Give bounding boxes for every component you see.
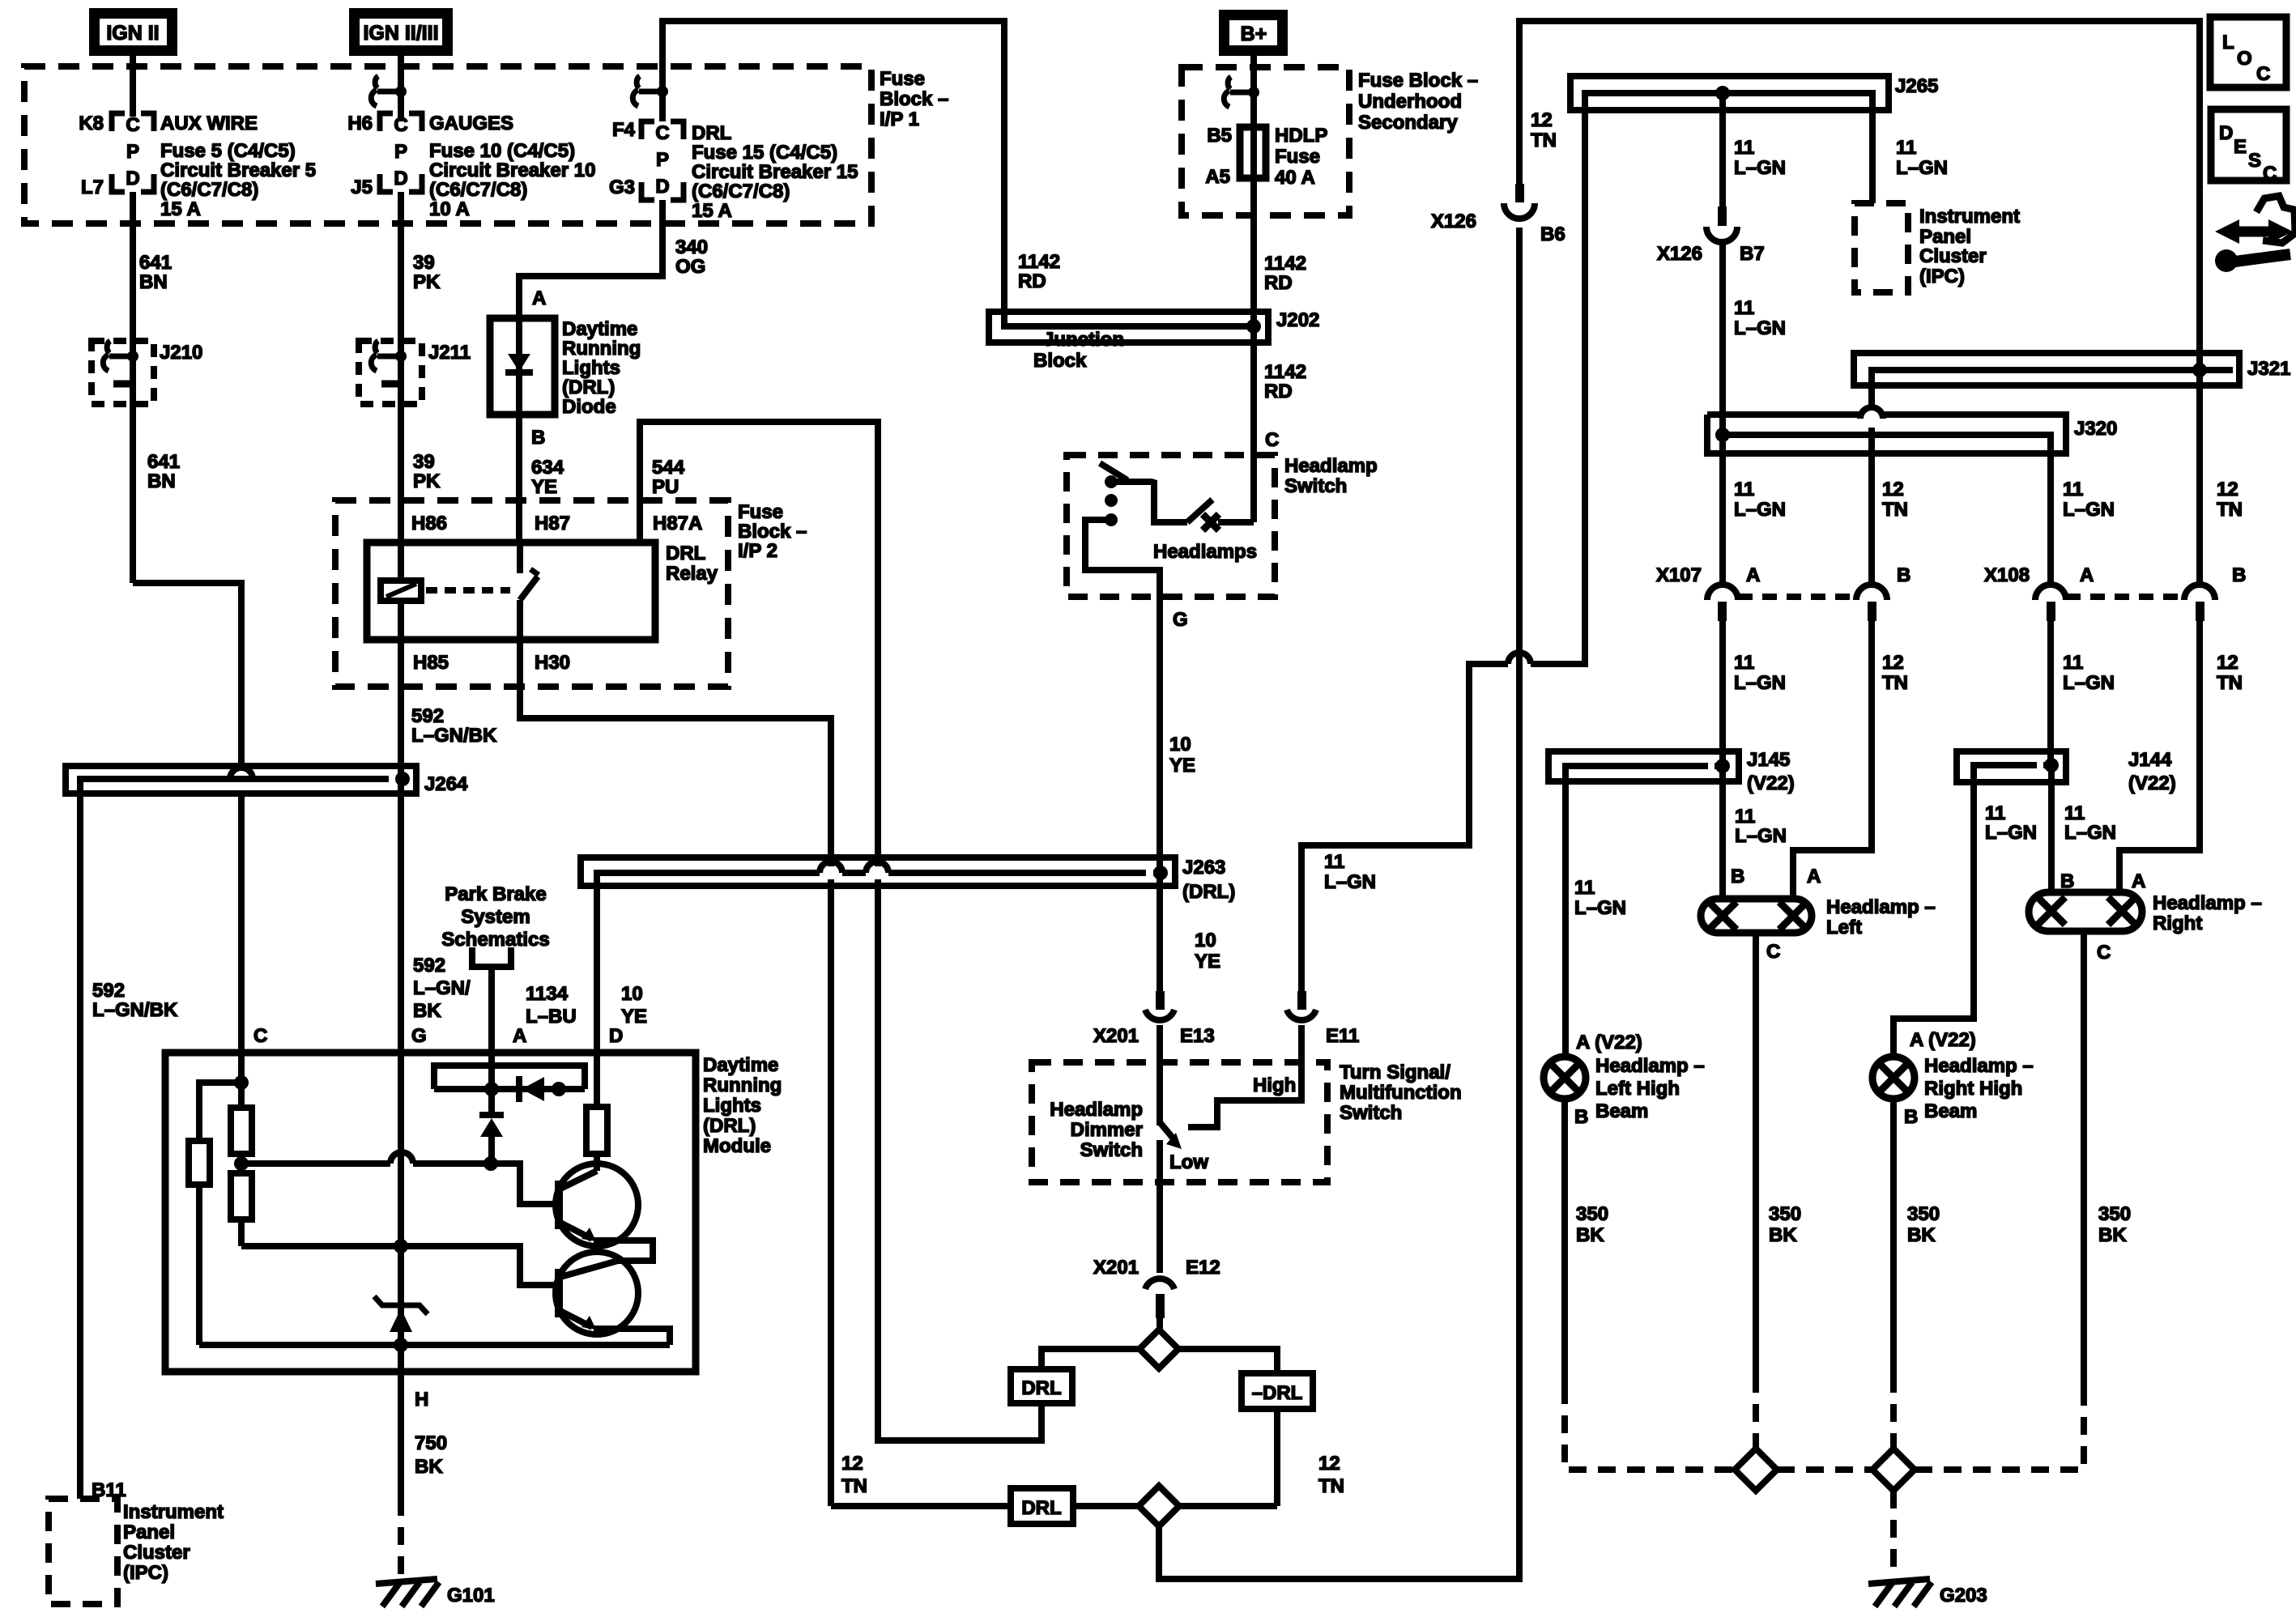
svg-text:L–GN: L–GN: [1985, 822, 2037, 844]
connector clip J211: [371, 341, 407, 384]
wire R3 to Q1 collector: [594, 1154, 600, 1171]
-DRL box: [1242, 1373, 1313, 1409]
svg-text:C: C: [1766, 941, 1780, 963]
svg-text:(C6/C7/C8): (C6/C7/C8): [429, 179, 527, 201]
svg-text:YE: YE: [531, 476, 557, 498]
junction block J202: [989, 312, 1268, 343]
svg-text:592: 592: [92, 980, 125, 1002]
svg-text:(DRL): (DRL): [703, 1115, 756, 1137]
label 634 YE: [531, 457, 564, 498]
wire through diode box: [516, 318, 522, 415]
svg-text:BK: BK: [1907, 1224, 1936, 1246]
svg-text:Park Brake: Park Brake: [445, 883, 546, 905]
svg-text:Fuse 10 (C4/C5): Fuse 10 (C4/C5): [429, 140, 575, 162]
svg-text:(V22): (V22): [2128, 772, 2176, 794]
label Instrument Panel Cluster (IPC) top: [1919, 206, 2020, 287]
svg-text:Circuit Breaker 15: Circuit Breaker 15: [692, 161, 858, 183]
svg-text:750: 750: [415, 1432, 447, 1454]
svg-text:1142: 1142: [1264, 253, 1306, 274]
label 12 TN right: [1318, 1453, 1344, 1497]
label 12 TN above X107 B: [1882, 479, 1908, 521]
svg-text:Running: Running: [703, 1074, 782, 1096]
svg-text:11: 11: [1734, 652, 1754, 674]
svg-text:YE: YE: [1195, 951, 1220, 972]
svg-text:L–GN: L–GN: [2063, 672, 2115, 694]
svg-text:Headlamp –: Headlamp –: [2153, 892, 2262, 914]
svg-text:PK: PK: [413, 271, 441, 293]
label Headlamp - Left: [1826, 896, 1936, 938]
svg-text:12: 12: [1882, 479, 1904, 500]
svg-text:Block –: Block –: [738, 521, 807, 543]
svg-text:E12: E12: [1186, 1257, 1220, 1279]
svg-text:L–GN: L–GN: [1734, 317, 1786, 339]
wire R1 to bottom rail: [196, 1185, 202, 1345]
dashed ground wire left lamp C: [1753, 1375, 1759, 1449]
svg-text:(IPC): (IPC): [1919, 266, 1965, 287]
svg-text:C: C: [655, 122, 669, 144]
svg-text:11: 11: [1734, 297, 1754, 319]
headlamp switch dashed box: [1067, 455, 1275, 597]
wire base lead Q1: [491, 1164, 556, 1204]
svg-text:Panel: Panel: [1919, 226, 1971, 248]
label 544 PU: [652, 457, 685, 498]
label DRL Relay: [666, 543, 718, 585]
wire 10 YE switch to J263: [1157, 597, 1163, 873]
svg-text:1142: 1142: [1018, 251, 1060, 273]
svg-text:592: 592: [411, 705, 444, 727]
splice pack J265: [1570, 76, 1889, 110]
svg-text:C: C: [394, 114, 407, 136]
svg-text:340: 340: [675, 236, 708, 258]
node on C wire: [234, 1075, 249, 1090]
wire J321 dot to X108 B: [2196, 370, 2203, 585]
wire J320 left to X107 A: [1719, 435, 1726, 585]
svg-text:350: 350: [1576, 1203, 1608, 1225]
wire IGN II/III down to CPD: [398, 50, 404, 121]
svg-text:B: B: [1574, 1106, 1588, 1128]
svg-text:X201: X201: [1093, 1257, 1139, 1279]
transistor Q2: [556, 1252, 638, 1334]
svg-text:L–GN: L–GN: [1734, 499, 1786, 521]
wire 634 YE diode B to relay H87: [516, 415, 522, 543]
svg-text:Headlamps: Headlamps: [1153, 541, 1257, 563]
svg-text:J5: J5: [351, 177, 373, 198]
hop of J321 wire over J320 top edge: [1860, 407, 1883, 419]
label 1142 RD below J202: [1264, 361, 1306, 402]
in-line connector J211 dashed box: [359, 341, 422, 404]
svg-text:Switch: Switch: [1340, 1102, 1402, 1124]
diamond splice lower: [1139, 1486, 1179, 1526]
turn signal multifunction switch dashed box: [1032, 1062, 1327, 1182]
label Headlamp Dimmer Switch: [1050, 1099, 1143, 1161]
svg-text:Headlamp: Headlamp: [1284, 455, 1378, 477]
label 350 BK 4: [2098, 1203, 2131, 1246]
svg-text:350: 350: [2098, 1203, 2131, 1225]
svg-text:H86: H86: [411, 513, 447, 534]
svg-text:D: D: [655, 176, 669, 198]
wire 1134 L-BU to module A: [488, 984, 495, 1053]
hop of C wire over J264 bus: [230, 768, 253, 779]
wire diamond2 to -DRL corner: [1179, 1503, 1277, 1509]
svg-text:System: System: [461, 906, 530, 928]
wire R2b down: [238, 1219, 245, 1246]
svg-text:High: High: [1253, 1074, 1296, 1096]
label 11 L-GN below X107 A: [1734, 652, 1786, 694]
svg-text:H87A: H87A: [653, 513, 702, 534]
svg-text:–DRL: –DRL: [1252, 1382, 1303, 1404]
svg-text:C: C: [253, 1025, 267, 1047]
svg-text:Diode: Diode: [562, 396, 616, 418]
ground diamond splice 3: [1735, 1449, 1777, 1491]
wire -DRL down to bottom wire: [1274, 1409, 1280, 1506]
svg-text:Multifunction: Multifunction: [1340, 1082, 1462, 1104]
svg-text:L7: L7: [81, 177, 104, 198]
diode symbol: [505, 354, 533, 372]
svg-text:H87: H87: [535, 513, 570, 534]
label 12 TN below X107 B: [1882, 652, 1908, 694]
wire IGN II down to CPD: [130, 50, 136, 117]
svg-text:X126: X126: [1657, 243, 1702, 265]
svg-text:H: H: [415, 1389, 428, 1411]
svg-text:A: A: [2132, 870, 2145, 892]
wire X108 A to J144: [2047, 621, 2054, 765]
resistor R3: [586, 1107, 607, 1154]
zener diode on G wire: [374, 1296, 428, 1332]
svg-text:Low: Low: [1169, 1151, 1208, 1173]
relay coil: [381, 543, 421, 640]
svg-text:C: C: [126, 114, 139, 136]
svg-text:634: 634: [531, 457, 564, 479]
label AUX WIRE fuse 5: [160, 113, 316, 220]
svg-text:11: 11: [2063, 652, 2083, 674]
label 11 L-GN J265 mid: [1734, 137, 1786, 179]
wire H30 down right and down to bottom DRL wire: [520, 640, 831, 866]
DRL module box: [165, 1053, 696, 1372]
node G-R2b: [394, 1239, 408, 1253]
headlamp left high beam lamp: [1544, 1057, 1586, 1099]
CPD fuse symbol F4/G3: [641, 121, 684, 200]
label 350 BK 2: [1769, 1203, 1801, 1246]
svg-text:TN: TN: [1531, 130, 1557, 151]
svg-text:E11: E11: [1326, 1025, 1359, 1047]
svg-text:I/P 1: I/P 1: [880, 109, 919, 130]
svg-text:J144: J144: [2128, 749, 2172, 771]
wire J144 left exit to right high beam: [1893, 782, 1974, 1057]
in-line connector J210 dashed box: [92, 341, 154, 404]
module internal: left branch wire: [199, 1083, 241, 1141]
label J145 (V22): [1747, 749, 1795, 794]
svg-text:B6: B6: [1540, 223, 1565, 245]
CPD fuse symbol H6/J5: [380, 113, 422, 192]
relay switch contact: [520, 543, 539, 640]
wire X108 B 12TN to headlamp right A: [2119, 621, 2200, 892]
svg-text:Instrument: Instrument: [1919, 206, 2020, 228]
wire 10 YE J263 to module D: [594, 886, 600, 1053]
module bottom rail: [199, 1342, 670, 1348]
svg-text:L–GN: L–GN: [1574, 897, 1626, 919]
svg-text:A5: A5: [1205, 166, 1230, 188]
headlamp right lamp: [2029, 892, 2142, 931]
svg-text:L–GN: L–GN: [1735, 825, 1787, 847]
svg-text:641: 641: [139, 252, 172, 274]
svg-text:Cluster: Cluster: [1919, 245, 1987, 267]
wire J265 dot to B7: [1719, 93, 1726, 206]
HDLP fuse symbol: [1240, 127, 1266, 178]
svg-text:TN: TN: [2217, 672, 2243, 694]
wire 641BN jog to module C column: [133, 583, 241, 766]
label DRL fuse 15: [692, 122, 858, 222]
svg-text:Switch: Switch: [1284, 475, 1347, 497]
ground G203: [1868, 1579, 1932, 1606]
svg-text:HDLP: HDLP: [1275, 125, 1327, 147]
svg-text:(DRL): (DRL): [1182, 881, 1235, 903]
svg-text:11: 11: [2064, 802, 2085, 824]
svg-text:Switch: Switch: [1080, 1139, 1143, 1161]
vertical diode on A wire: [479, 1089, 504, 1164]
wire J265 right leg to IPC: [1869, 110, 1876, 203]
svg-text:Fuse Block –: Fuse Block –: [1358, 70, 1478, 91]
svg-text:B7: B7: [1740, 243, 1765, 265]
svg-text:Daytime: Daytime: [562, 318, 637, 340]
label 350 BK 1: [1576, 1203, 1608, 1246]
label 12 TN above X108 B: [2217, 479, 2243, 521]
transistor Q1: [556, 1164, 638, 1246]
svg-text:(C6/C7/C8): (C6/C7/C8): [160, 179, 258, 201]
label 340 OG: [675, 236, 708, 278]
svg-text:D: D: [394, 168, 407, 189]
wire 750 BK dashed to ground: [398, 1498, 404, 1577]
wire J320 right to X108 A: [2047, 453, 2054, 585]
dimmer switch lever: [1160, 1122, 1182, 1149]
label 12 TN top: [1531, 109, 1557, 151]
label Headlamp - Right High Beam: [1924, 1055, 2034, 1122]
label 11 L-GN left high beam: [1574, 877, 1626, 919]
instrument panel cluster dashed box top right: [1855, 203, 1908, 292]
svg-text:H30: H30: [535, 652, 570, 674]
label 10 YE module D: [621, 983, 647, 1028]
wire B7 down to J320: [1719, 241, 1726, 435]
label 10 YE lower: [1195, 930, 1220, 972]
svg-text:J265: J265: [1895, 75, 1938, 97]
wire 641 BN upper: [130, 192, 136, 583]
label 592 L-GN/BK relay: [411, 705, 497, 747]
svg-text:39: 39: [413, 451, 435, 473]
label 1142 RD right: [1264, 253, 1306, 294]
svg-text:TN: TN: [1882, 499, 1908, 521]
splice pack J145: [1548, 751, 1739, 781]
CPD fuse symbol K8/L7: [112, 113, 154, 192]
label 11 L-GN J144 right: [2064, 802, 2116, 844]
ground diamond splice 4: [1872, 1449, 1915, 1491]
svg-text:(IPC): (IPC): [123, 1562, 168, 1584]
label 592 L-GN/ BK module G: [413, 955, 471, 1022]
svg-text:J211: J211: [428, 342, 471, 364]
label 1134 L-BU: [526, 983, 577, 1028]
wire Q2 emitter to bottom rail: [594, 1329, 670, 1345]
label 11 L-GN B7: [1734, 297, 1786, 339]
label Fuse Block - Underhood Secondary: [1358, 70, 1478, 134]
svg-text:Headlamp –: Headlamp –: [1924, 1055, 2034, 1077]
clip symbol on IGN II/III wire: [371, 76, 407, 106]
svg-text:12: 12: [841, 1453, 863, 1474]
wire X107 A to J145: [1719, 621, 1726, 766]
svg-text:350: 350: [1907, 1203, 1940, 1225]
bottom DRL wire left segment: [831, 1503, 1011, 1509]
DRL diode box: [490, 318, 555, 415]
svg-text:B: B: [1897, 564, 1910, 586]
svg-text:L–GN/BK: L–GN/BK: [92, 999, 178, 1021]
wire diamond to -DRL box: [1178, 1349, 1277, 1373]
svg-text:Running: Running: [562, 338, 641, 360]
svg-text:G203: G203: [1940, 1585, 1987, 1606]
diode row inner loop: [434, 1066, 585, 1089]
svg-text:AUX WIRE: AUX WIRE: [160, 113, 258, 134]
node diode row right: [552, 1082, 566, 1096]
splice pack J144: [1957, 751, 2066, 782]
svg-text:BK: BK: [1769, 1224, 1797, 1246]
svg-text:10: 10: [621, 983, 643, 1005]
module internal A wire: [488, 1053, 495, 1089]
wire 11 L-GN E11 to J265 leg: [1301, 664, 1508, 991]
wire E13 into multifunction switch: [1157, 1025, 1163, 1126]
wire H85/592 to module G: [398, 779, 404, 1053]
svg-text:Schematics: Schematics: [441, 929, 549, 951]
svg-text:L–GN: L–GN: [1896, 157, 1948, 179]
svg-text:Cluster: Cluster: [123, 1542, 190, 1564]
label 11 L-GN below X108 A: [2063, 652, 2115, 694]
svg-text:D: D: [2219, 122, 2233, 144]
svg-text:A (V22): A (V22): [1576, 1032, 1642, 1053]
dashed ground wire between diamonds: [1777, 1466, 1872, 1473]
svg-text:B: B: [1731, 866, 1744, 887]
node2: [234, 1156, 249, 1171]
wire low contact to E12: [1157, 1140, 1163, 1273]
svg-text:11: 11: [1574, 877, 1595, 899]
svg-text:S: S: [2248, 150, 2261, 172]
svg-text:11: 11: [1735, 806, 1755, 828]
svg-text:RD: RD: [1018, 270, 1046, 292]
svg-text:C: C: [2097, 942, 2111, 964]
wire J145 left exit to left high beam: [1562, 781, 1569, 1057]
svg-text:IGN II/III: IGN II/III: [363, 22, 438, 45]
svg-text:641: 641: [147, 451, 180, 473]
label Turn Signal/ Multifunction Switch: [1340, 1062, 1462, 1124]
label 641 BN upper: [139, 252, 172, 293]
wire right high beam B down: [1890, 1099, 1897, 1375]
dashed link X108: [2066, 594, 2184, 600]
label GAUGES fuse 10: [429, 113, 595, 220]
svg-text:TN: TN: [841, 1475, 867, 1497]
svg-text:G: G: [1173, 609, 1188, 631]
svg-text:Fuse 15 (C4/C5): Fuse 15 (C4/C5): [692, 142, 837, 164]
svg-text:B+: B+: [1241, 23, 1267, 45]
svg-text:RD: RD: [1264, 381, 1293, 402]
svg-text:Headlamp –: Headlamp –: [1826, 896, 1936, 918]
DRL box 1: [1011, 1369, 1072, 1403]
dashed wire diamond4 to G203: [1890, 1491, 1897, 1575]
relay coil-contact dashed link: [426, 587, 510, 594]
svg-text:Relay: Relay: [666, 563, 718, 585]
svg-text:BK: BK: [413, 1000, 441, 1022]
svg-text:40 A: 40 A: [1275, 167, 1315, 189]
label 39 PK upper: [413, 252, 441, 293]
svg-text:A: A: [1746, 564, 1760, 586]
svg-text:J145: J145: [1747, 749, 1790, 771]
resistor R1: [189, 1141, 210, 1185]
wire B+ down into underhood fuse block: [1250, 50, 1257, 127]
svg-text:592: 592: [413, 955, 445, 977]
label Fuse Block - I/P 2: [738, 501, 807, 562]
label Daytime Running Lights (DRL) Module: [703, 1054, 782, 1157]
svg-text:RD: RD: [1264, 272, 1293, 294]
power label box B+: [1225, 15, 1283, 51]
svg-text:B: B: [1904, 1106, 1918, 1128]
svg-text:Headlamp –: Headlamp –: [1595, 1055, 1705, 1077]
svg-text:Instrument: Instrument: [123, 1501, 224, 1523]
wire H87A up over to J263 crossing and DRL box: [640, 422, 878, 866]
connector X107 A: [1707, 585, 1738, 621]
svg-text:H6: H6: [347, 113, 373, 134]
svg-text:15 A: 15 A: [692, 200, 732, 222]
svg-text:Secondary: Secondary: [1358, 112, 1458, 134]
label Instrument Panel Cluster (IPC) bottom: [123, 1501, 224, 1584]
label 592 L-GN/BK left: [92, 980, 178, 1021]
svg-text:L–GN: L–GN: [2064, 822, 2116, 844]
svg-text:12: 12: [2217, 479, 2238, 500]
label Junction Block: [1033, 329, 1124, 372]
wire J145 dot to headlamp left B: [1719, 766, 1726, 899]
wire J321 left exit down through J320 to X107 B: [1868, 385, 1875, 585]
svg-text:1134: 1134: [526, 983, 569, 1005]
label Headlamp Switch: [1284, 455, 1378, 497]
svg-text:Dimmer: Dimmer: [1071, 1119, 1143, 1141]
label 750 BK: [415, 1432, 447, 1478]
label 641 BN lower: [147, 451, 180, 492]
wire J144 dot to headlamp right B: [2048, 765, 2055, 892]
svg-text:350: 350: [1769, 1203, 1801, 1225]
label 11 L-GN above X108 A: [2063, 479, 2115, 521]
svg-text:L–GN/BK: L–GN/BK: [411, 725, 497, 747]
svg-text:Beam: Beam: [1595, 1100, 1648, 1122]
svg-text:11: 11: [1734, 137, 1754, 159]
svg-text:DRL: DRL: [1021, 1377, 1061, 1399]
svg-text:BN: BN: [147, 470, 176, 492]
hop of E11 wire over 12TN vertical: [1508, 653, 1531, 664]
label 11 L-GN J144 left: [1985, 802, 2037, 844]
svg-text:P: P: [126, 141, 139, 163]
fuse block Underhood Secondary dashed box: [1182, 67, 1349, 215]
svg-text:L–GN: L–GN: [1734, 157, 1786, 179]
svg-text:Right High: Right High: [1924, 1078, 2022, 1100]
svg-text:Circuit Breaker 5: Circuit Breaker 5: [160, 160, 316, 181]
svg-text:(DRL): (DRL): [562, 377, 615, 398]
label 10 YE upper: [1169, 734, 1195, 777]
label J144 (V22): [2128, 749, 2176, 794]
wire H30 continuation below J263 hop: [828, 879, 834, 1506]
wire 1142 RD to headlamp switch: [1250, 326, 1257, 522]
label 1142 RD left: [1018, 251, 1060, 292]
svg-text:15 A: 15 A: [160, 198, 201, 220]
svg-text:E13: E13: [1180, 1025, 1215, 1047]
svg-text:11: 11: [1324, 851, 1344, 873]
connector clip J210: [103, 341, 138, 384]
svg-text:PU: PU: [652, 476, 679, 498]
svg-text:Fuse: Fuse: [738, 501, 783, 523]
svg-text:Circuit Breaker 10: Circuit Breaker 10: [429, 160, 595, 181]
resistor R2a: [231, 1108, 252, 1154]
label 11 L-GN above X107 A: [1734, 479, 1786, 521]
dashed ground wire right high beam: [1890, 1375, 1897, 1449]
